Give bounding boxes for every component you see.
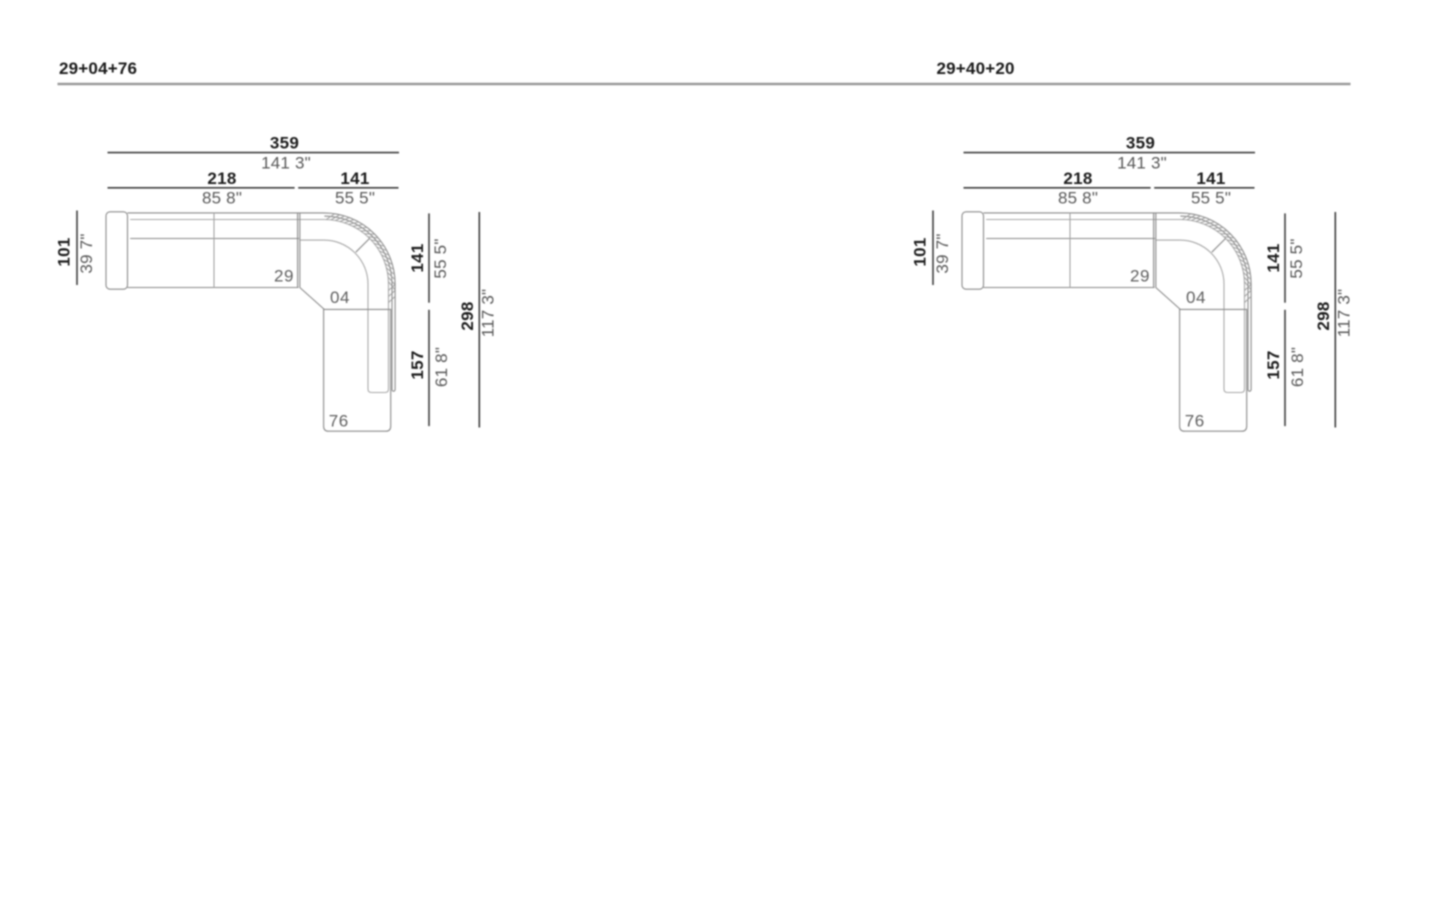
header horizontal rule — [58, 83, 1351, 85]
svg-text:29+40+20: 29+40+20 — [937, 59, 1015, 78]
right sofa diagram 29+40+20 — [911, 134, 1354, 432]
svg-text:29+04+76: 29+04+76 — [59, 59, 137, 78]
left sofa diagram 29+04+76 — [55, 134, 498, 432]
